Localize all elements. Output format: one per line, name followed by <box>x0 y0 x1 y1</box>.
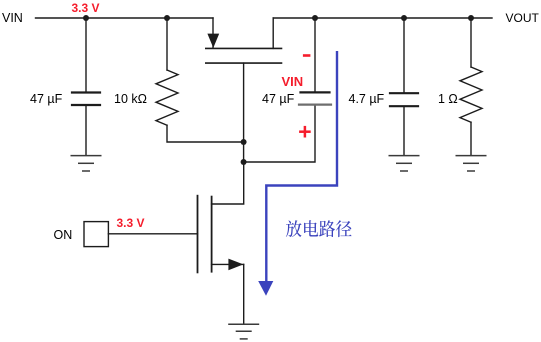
svg-text:VOUT: VOUT <box>506 11 540 25</box>
transistor Q1 PMOS gate bar <box>206 62 282 64</box>
svg-text:10 kΩ: 10 kΩ <box>114 92 147 106</box>
transistor Q1 PMOS channel bar <box>206 47 282 49</box>
capacitor C3 4.7uF top lead <box>403 18 405 93</box>
polarity minus at C2 <box>303 54 311 57</box>
junction dot on VIN rail at C1 <box>83 15 89 21</box>
junction dot gate node upper <box>241 139 247 145</box>
transistor Q2 NMOS drain lead <box>212 162 244 204</box>
svg-text:ON: ON <box>54 228 73 242</box>
capacitor C1 47uF top lead <box>85 18 87 92</box>
svg-text:3.3 V: 3.3 V <box>72 1 100 15</box>
polarity plus at C2 <box>299 126 311 138</box>
wire: node to C2 positive terminal <box>244 105 315 162</box>
junction dot gate node lower <box>241 159 247 165</box>
junction dot on VOUT rail at C2 <box>312 15 318 21</box>
wire: PMOS gate to node <box>243 63 245 142</box>
discharge path blue polyline <box>266 51 337 282</box>
junction dot on VIN rail at R1 <box>164 15 170 21</box>
resistor R2 1ohm zigzag <box>460 67 482 122</box>
transistor Q2 NMOS gate line <box>197 196 199 273</box>
wire: NMOS source to ground <box>243 264 245 324</box>
svg-text:47 µF: 47 µF <box>30 92 63 106</box>
capacitor C1 47uF bottom plate <box>72 104 100 106</box>
resistor R2 1ohm top lead <box>470 18 472 67</box>
capacitor C2 47uF top plate <box>301 91 330 93</box>
terminal box ON <box>84 222 108 247</box>
transistor Q2 NMOS source arrow <box>228 259 243 271</box>
svg-text:1 Ω: 1 Ω <box>438 92 458 106</box>
ground G3 under R2 <box>456 156 487 171</box>
capacitor C2 47uF bottom plate <box>299 103 331 105</box>
capacitor C3 4.7uF bottom plate <box>390 105 418 107</box>
transistor Q2 NMOS source lead <box>212 263 244 265</box>
svg-text:4.7 µF: 4.7 µF <box>349 92 385 106</box>
resistor R2 1ohm bottom lead <box>470 122 472 155</box>
svg-text:3.3 V: 3.3 V <box>117 216 145 230</box>
junction dot on VOUT rail at R2 <box>468 15 474 21</box>
wire: node to NMOS drain net <box>243 142 245 162</box>
capacitor C1 47uF top plate <box>72 91 100 93</box>
ground G2 under C3 <box>389 156 420 171</box>
discharge path arrowhead <box>258 281 273 296</box>
wire: ON box to NMOS gate <box>108 233 197 235</box>
capacitor C2 47uF top lead <box>314 18 316 92</box>
resistor R1 10k zigzag <box>156 70 178 125</box>
transistor Q2 NMOS channel line <box>211 197 213 272</box>
ground G4 under Q2 source <box>228 324 259 339</box>
junction dot on VOUT rail at C3 <box>401 15 407 21</box>
resistor R1 10k bottom lead <box>167 125 244 142</box>
transistor Q1 PMOS left source lead <box>212 18 214 48</box>
transistor Q1 PMOS arrow <box>207 34 219 48</box>
svg-text:47 µF: 47 µF <box>262 92 295 106</box>
transistor Q1 PMOS right drain lead <box>272 18 274 48</box>
svg-text:VIN: VIN <box>2 11 23 25</box>
capacitor C1 47uF bottom lead <box>85 106 87 155</box>
capacitor C3 4.7uF bottom lead <box>403 106 405 155</box>
label discharge path (fang dian lu jing) <box>286 220 352 237</box>
ground G1 under C1 <box>71 156 102 171</box>
svg-text:VIN: VIN <box>282 74 304 89</box>
wire: VIN rail left segment <box>36 17 214 19</box>
wire: VOUT rail right segment <box>273 17 492 19</box>
capacitor C3 4.7uF top plate <box>390 92 418 94</box>
resistor R1 10k top lead <box>166 18 168 70</box>
